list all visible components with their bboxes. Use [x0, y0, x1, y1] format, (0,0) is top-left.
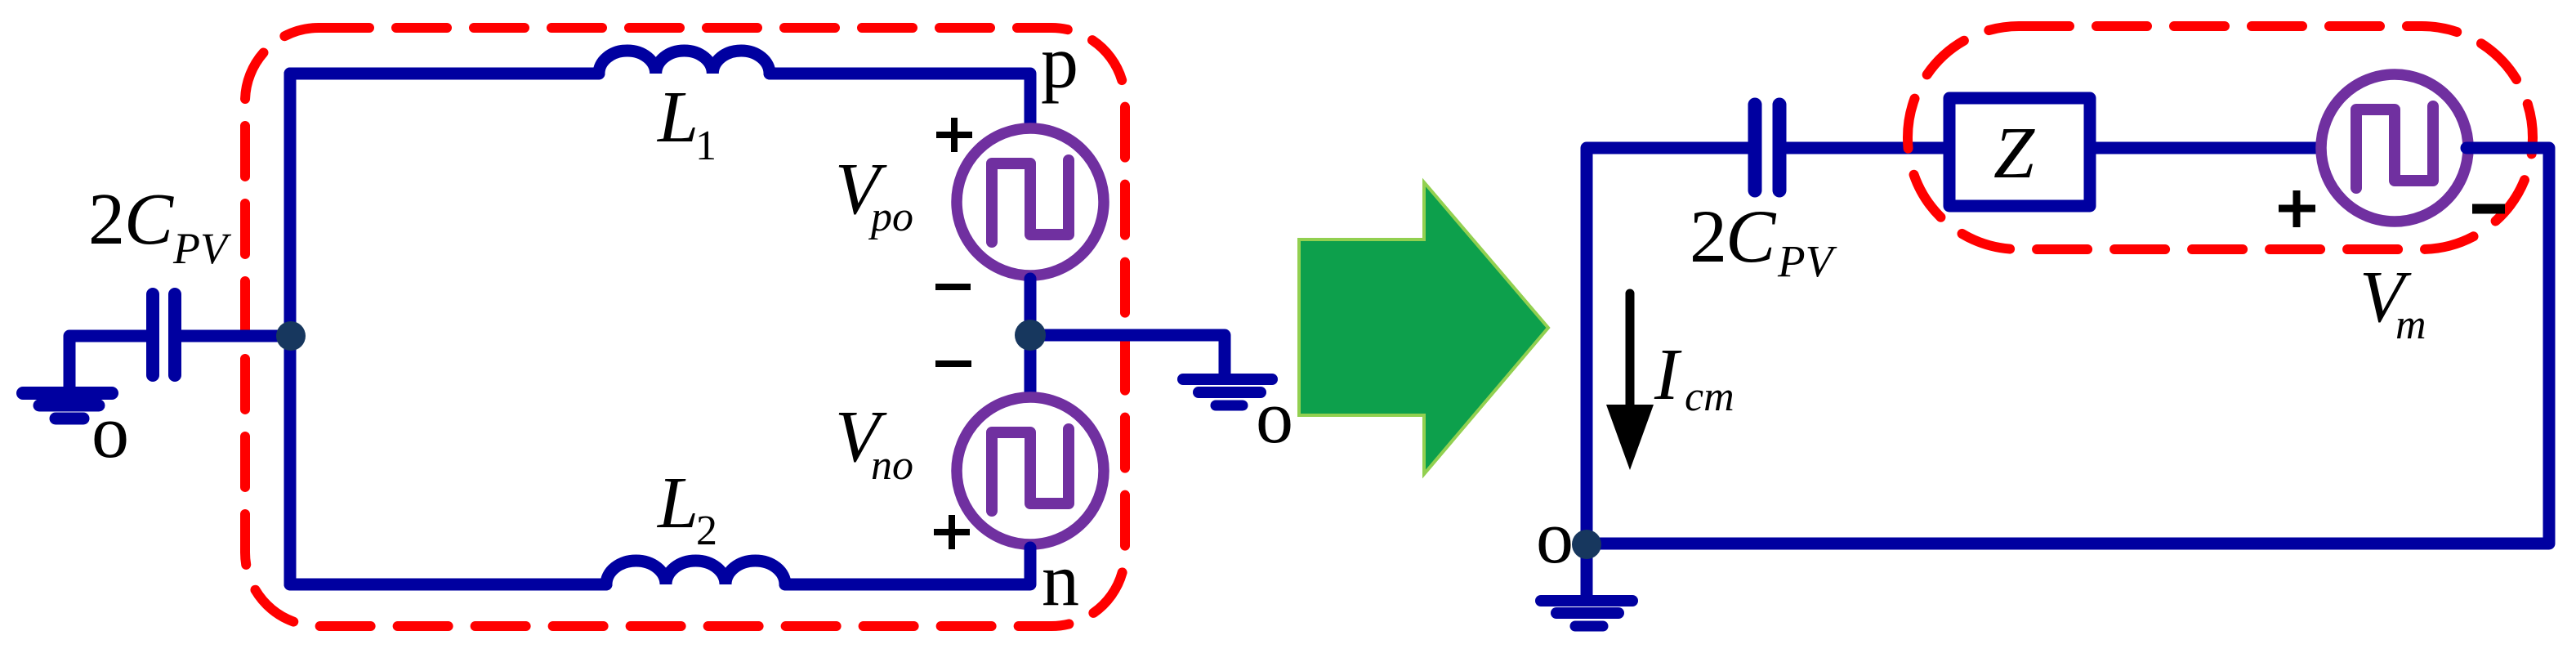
svg-text:PV: PV — [1777, 236, 1837, 286]
impedance Z box — [1949, 98, 2090, 206]
capacitor 2C_PV (left) plate 2 — [168, 294, 181, 375]
svg-text:PV: PV — [172, 224, 232, 273]
svg-text:C: C — [124, 179, 174, 260]
label L2 — [656, 463, 717, 554]
svg-text:1: 1 — [695, 123, 717, 169]
label V_po — [835, 149, 913, 240]
wire: V_no bottom lead — [785, 548, 1030, 584]
svg-text:no: no — [871, 442, 913, 489]
source V_m circle — [2321, 74, 2468, 222]
source V_no square-wave symbol — [992, 429, 1069, 511]
svg-text:o: o — [1256, 375, 1293, 459]
minus sign of V_no — [935, 360, 971, 367]
minus sign of V_po — [935, 284, 971, 290]
plus sign of V_po — [936, 118, 972, 152]
current I_cm arrow shaft — [1626, 293, 1635, 415]
wire: V_m to right vertical and bottom return — [1587, 148, 2549, 544]
label 2C_PV (right) — [1690, 195, 1837, 286]
node: junction dot on left branch — [276, 321, 306, 351]
svg-text:cm: cm — [1685, 374, 1734, 420]
svg-text:o: o — [1536, 495, 1574, 579]
label 2C_PV (left) — [88, 179, 232, 273]
transformation arrow (green block arrow) — [1299, 182, 1548, 474]
current I_cm arrow head — [1606, 405, 1654, 470]
capacitor 2C_PV (left) plate 1 — [146, 294, 159, 375]
enclosure: red dashed pill around Z and V_m — [1908, 26, 2533, 249]
svg-text:p: p — [1041, 20, 1078, 104]
svg-text:2: 2 — [1690, 195, 1727, 278]
node: middle junction dot — [1015, 320, 1046, 351]
source V_po circle — [957, 128, 1104, 275]
node: right circuit junction dot — [1572, 530, 1601, 559]
source V_po square-wave symbol — [992, 160, 1069, 242]
wire: middle node to ground — [1030, 335, 1225, 376]
label L1 — [656, 77, 717, 169]
wire: junction to ground stub — [1581, 544, 1593, 595]
wire: between V_po and V_no through middle node — [1025, 279, 1037, 394]
inductor L1 — [599, 51, 770, 74]
wire: left vertical branch — [284, 74, 297, 584]
wire: bottom segment left of L2 — [290, 579, 606, 591]
svg-text:C: C — [1726, 195, 1777, 278]
wire: capacitor left lead and drop to ground — [69, 336, 148, 387]
wire: top segment left of L1 — [290, 68, 599, 80]
plus sign of V_no — [934, 515, 970, 549]
ground (left, node o) — [23, 393, 112, 418]
ground (middle, node o) — [1183, 379, 1272, 405]
capacitor 2C_PV (right) plate 1 — [1748, 105, 1762, 190]
svg-text:2: 2 — [88, 179, 125, 260]
svg-text:I: I — [1654, 334, 1682, 415]
ground (right, node o) — [1541, 601, 1632, 626]
capacitor 2C_PV (right) plate 2 — [1773, 105, 1787, 190]
svg-text:2: 2 — [696, 508, 717, 554]
source V_no circle — [957, 397, 1104, 544]
svg-text:o: o — [92, 390, 129, 473]
inductor L2 — [606, 561, 785, 584]
svg-text:po: po — [868, 194, 913, 240]
wire: right circuit left vertical + top lead to capacitor — [1587, 148, 1748, 544]
enclosure: red dashed box around inverter CM equivalent circuit — [245, 28, 1125, 626]
svg-text:n: n — [1042, 538, 1079, 621]
minus sign of V_m — [2472, 204, 2505, 214]
wire: Z to V_m — [2090, 142, 2328, 154]
wire: capacitor to impedance Z — [1787, 142, 1949, 154]
svg-text:L: L — [656, 77, 699, 158]
svg-text:L: L — [656, 463, 699, 544]
source V_m square-wave symbol — [2356, 106, 2433, 188]
label I_cm — [1654, 334, 1734, 420]
wire: top segment right of L1 down to V_po — [770, 74, 1030, 125]
plus sign of V_m — [2279, 190, 2315, 227]
svg-text:Z: Z — [1993, 113, 2035, 194]
wire: capacitor right lead to node — [181, 330, 290, 342]
label V_m — [2359, 257, 2426, 348]
svg-text:m: m — [2395, 302, 2426, 348]
label V_no — [835, 396, 913, 489]
